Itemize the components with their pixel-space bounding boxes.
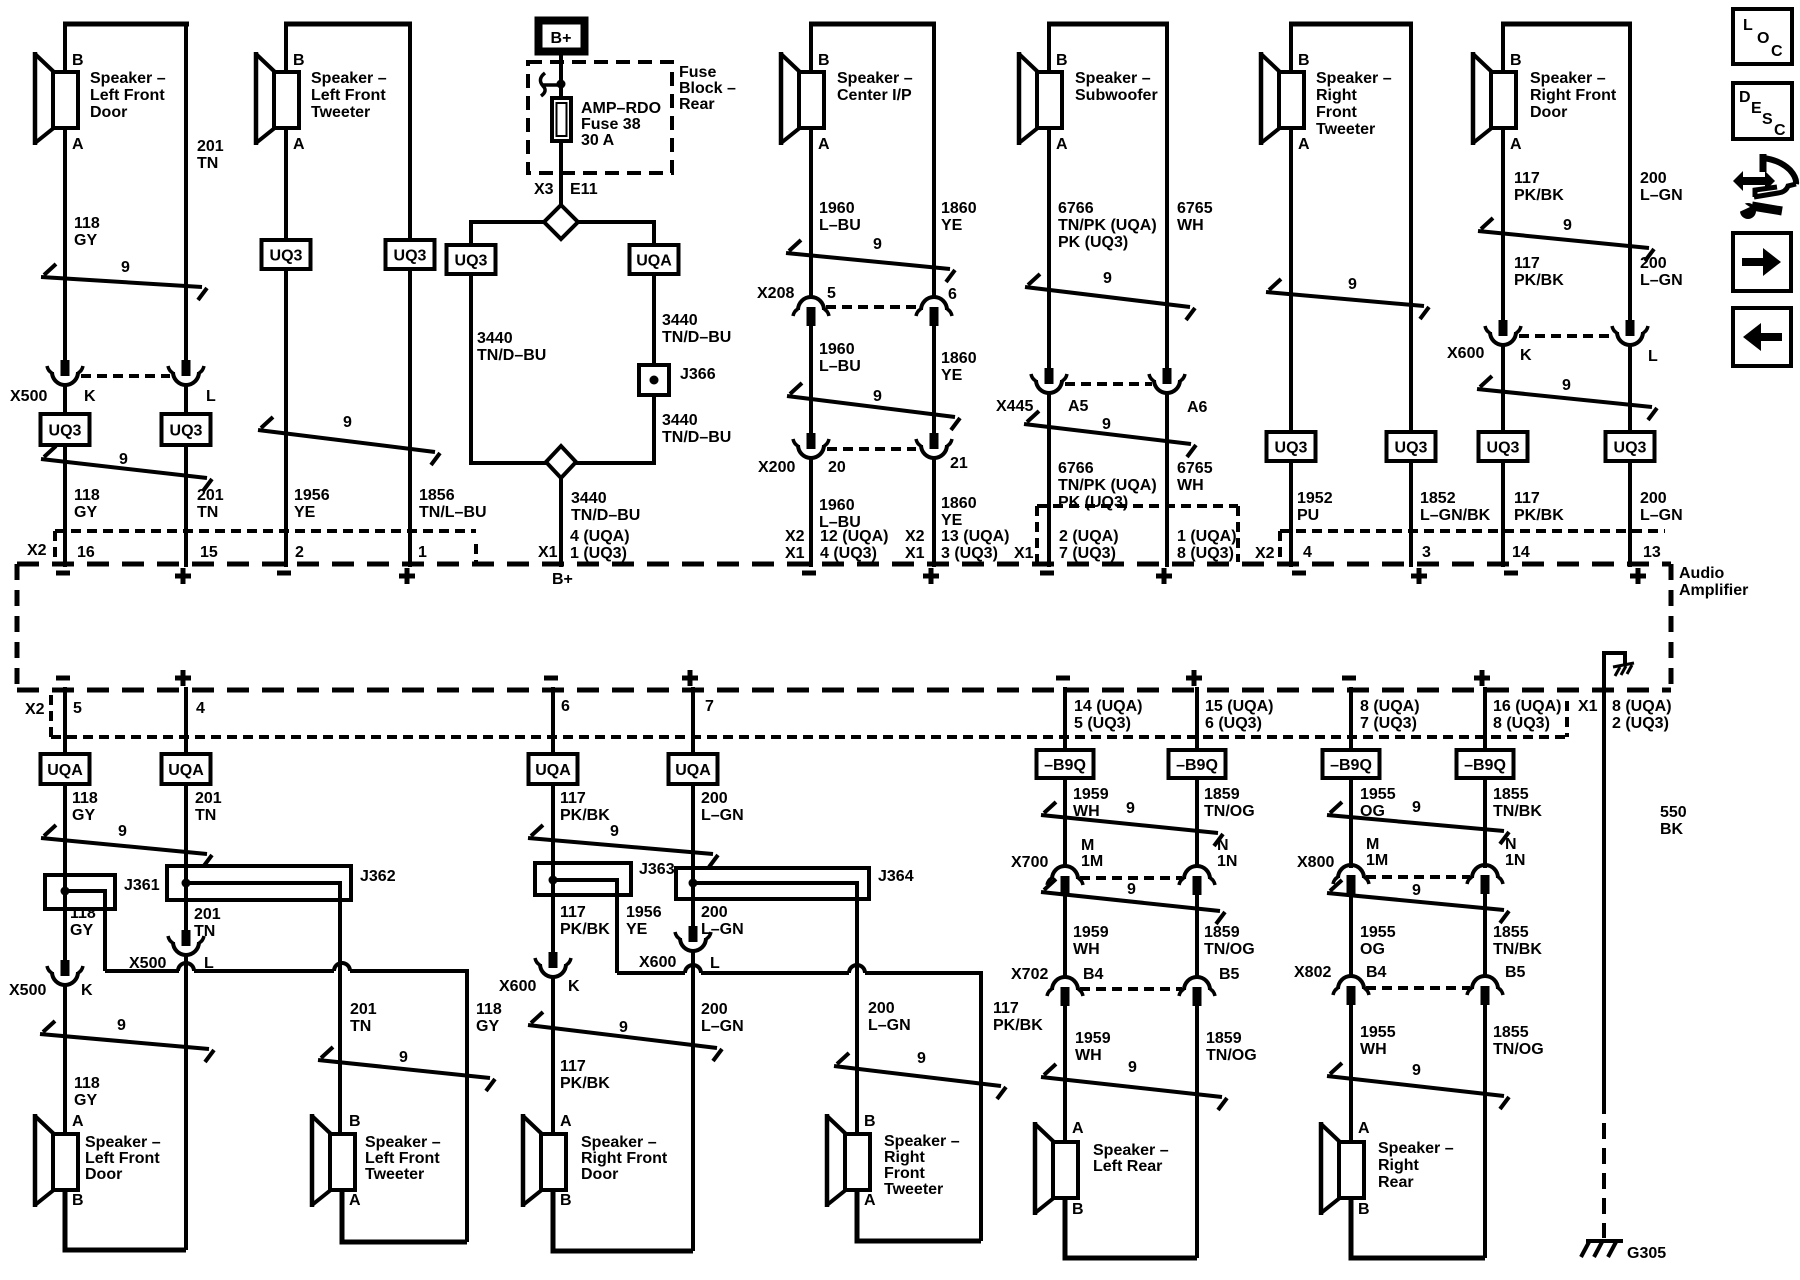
svg-text:3 (UQ3): 3 (UQ3) (941, 545, 998, 562)
svg-text:WH: WH (1177, 217, 1204, 234)
option box -B9Q (1323, 750, 1380, 778)
svg-text:L–GN/BK: L–GN/BK (1420, 507, 1491, 524)
wire 6765 WH to amp pin 1 (1167, 393, 1213, 567)
svg-text:D: D (1739, 89, 1751, 106)
svg-text:E11: E11 (570, 181, 598, 198)
wire 1856 TN/L-BU to amp pin 1 (410, 269, 487, 567)
svg-text:9: 9 (343, 414, 352, 431)
svg-text:A: A (1298, 136, 1310, 153)
svg-text:GY: GY (74, 232, 97, 249)
svg-text:1860: 1860 (941, 495, 977, 512)
wire 201 TN to amp pin 15 (186, 445, 224, 567)
svg-text:UQA: UQA (168, 762, 204, 779)
X702 dotted mate line (1080, 987, 1182, 991)
svg-text:GY: GY (72, 807, 95, 824)
twisted pair 9 (318, 1047, 495, 1091)
svg-text:9: 9 (1412, 1062, 1421, 1079)
svg-text:BK: BK (1660, 821, 1684, 838)
wire 1955 WH to R rear speaker (1351, 1005, 1396, 1142)
speaker SP5 Speaker - Right Front Tweeter (top) (1261, 24, 1413, 153)
svg-text:6766: 6766 (1058, 460, 1094, 477)
twisted pair 9 (834, 1050, 1006, 1099)
svg-text:117: 117 (993, 1000, 1019, 1017)
option box UQ3 (1267, 432, 1316, 461)
svg-text:9: 9 (1127, 881, 1136, 898)
speaker SP2 Speaker - Left Front Tweeter (top) (256, 24, 412, 153)
twisted pair 9 (787, 383, 960, 430)
svg-text:TN/PK (UQA): TN/PK (UQA) (1058, 217, 1157, 234)
svg-text:PK/BK: PK/BK (560, 921, 610, 938)
twisted pair 9 (1327, 880, 1509, 923)
svg-text:21: 21 (950, 455, 968, 472)
option box UQ3 (262, 240, 311, 269)
svg-text:TN/OG: TN/OG (1204, 803, 1255, 820)
svg-text:Speaker –: Speaker – (837, 70, 913, 87)
twisted pair 9 (786, 236, 955, 282)
svg-text:A: A (293, 136, 305, 153)
svg-text:PK/BK: PK/BK (1514, 272, 1564, 289)
wire 6766 to amp pin 2 (1049, 393, 1157, 567)
wire 1955 OG to X802 (1351, 894, 1396, 976)
svg-text:201: 201 (350, 1001, 377, 1018)
svg-text:15: 15 (200, 544, 218, 561)
wire 1952 PU to amp pin 4 (1291, 461, 1333, 567)
option box -B9Q (1037, 750, 1094, 778)
svg-text:A: A (560, 1113, 572, 1130)
svg-text:B: B (293, 52, 305, 69)
wire 3440 TN/D-BU right branch lower (576, 395, 731, 463)
svg-text:6765: 6765 (1177, 200, 1213, 217)
svg-text:C: C (1771, 43, 1783, 60)
wire amp pin 14 to -B9Q (1063, 687, 1067, 750)
twisted pair 9 (258, 414, 440, 465)
connector X500 pin L (bottom) (129, 930, 214, 972)
svg-text:B4: B4 (1366, 964, 1387, 981)
svg-text:X500: X500 (9, 982, 46, 999)
svg-text:201: 201 (194, 906, 221, 923)
svg-text:X1: X1 (905, 545, 925, 562)
svg-text:TN: TN (195, 807, 216, 824)
option box UQ3 (1479, 432, 1528, 461)
wire 201 TN X500 L down (184, 955, 188, 1250)
J362 branch wire 201 TN (186, 883, 377, 1134)
svg-text:TN/D–BU: TN/D–BU (662, 429, 731, 446)
svg-text:1N: 1N (1217, 853, 1237, 870)
svg-text:6765: 6765 (1177, 460, 1213, 477)
svg-text:1959: 1959 (1073, 786, 1109, 803)
svg-text:2: 2 (295, 544, 304, 561)
X802 dotted mate line (1366, 986, 1470, 990)
wire B+ into fuse block (559, 52, 563, 98)
wire 118 GY LF door negative (65, 24, 100, 360)
svg-text:UQ3: UQ3 (394, 248, 427, 265)
wire 117 PK/BK to RF door speaker A (553, 977, 610, 1134)
svg-text:9: 9 (1412, 882, 1421, 899)
RF door speaker loop bottom (553, 1190, 693, 1251)
wire amp pin 6 to UQA (551, 687, 555, 754)
svg-text:PK/BK: PK/BK (560, 807, 610, 824)
svg-text:Right Front: Right Front (581, 1150, 668, 1167)
svg-text:UQ3: UQ3 (170, 423, 203, 440)
svg-text:7: 7 (705, 698, 714, 715)
svg-text:1955: 1955 (1360, 924, 1396, 941)
connector X200 pin 21 (916, 433, 968, 472)
svg-text:TN/BK: TN/BK (1493, 803, 1542, 820)
connector X445 pin A6 (1149, 368, 1208, 416)
svg-text:Center I/P: Center I/P (837, 87, 912, 104)
svg-text:WH: WH (1073, 941, 1100, 958)
option box UQA right branch (630, 245, 679, 274)
wire 3440 TN/D-BU right branch upper (578, 222, 731, 365)
LF door speaker loop bottom (65, 1190, 186, 1250)
svg-text:UQA: UQA (535, 762, 571, 779)
svg-text:117: 117 (1514, 170, 1540, 187)
twisted pair 9 (41, 259, 207, 300)
svg-text:YE: YE (941, 512, 963, 529)
wire labels below crossing (1514, 255, 1683, 289)
svg-text:X800: X800 (1297, 854, 1334, 871)
svg-text:X1: X1 (1578, 698, 1598, 715)
svg-text:X2: X2 (905, 528, 925, 545)
svg-text:9: 9 (610, 823, 619, 840)
R rear speaker loop bottom (1351, 1198, 1485, 1258)
speaker SP6 Speaker - Right Front Door (top) (1473, 24, 1632, 153)
svg-text:13: 13 (1643, 544, 1661, 561)
svg-text:YE: YE (941, 217, 963, 234)
amp bottom connector dotted row (51, 695, 1567, 737)
svg-text:Front: Front (884, 1165, 926, 1182)
svg-text:B: B (560, 1192, 572, 1209)
connector X700 pin M 1M (1011, 837, 1103, 895)
speaker SP8 Speaker - Left Front Tweeter (bottom) (312, 1113, 441, 1209)
svg-text:TN/D–BU: TN/D–BU (571, 507, 640, 524)
svg-text:WH: WH (1177, 477, 1204, 494)
svg-text:TN/D–BU: TN/D–BU (477, 347, 546, 364)
wire amp pin 7 to UQA (691, 687, 695, 754)
wire 6766 subwoofer negative (1049, 24, 1157, 368)
shared rail 1956 YE / 117 PK/BK (617, 965, 1043, 1241)
svg-text:Tweeter: Tweeter (1316, 121, 1375, 138)
twisted pair 9 (1041, 800, 1223, 846)
svg-text:Right: Right (1316, 87, 1358, 104)
svg-text:M: M (1366, 836, 1379, 853)
svg-text:B: B (864, 1113, 876, 1130)
svg-text:Speaker –: Speaker – (1316, 70, 1392, 87)
svg-text:1859: 1859 (1204, 786, 1240, 803)
svg-text:UQA: UQA (675, 762, 711, 779)
connector X700 pin N 1N (1179, 837, 1237, 895)
svg-text:118: 118 (476, 1001, 502, 1018)
svg-text:–B9Q: –B9Q (1044, 757, 1086, 774)
svg-text:UQ3: UQ3 (455, 253, 488, 270)
wire 1860 YE center positive (934, 24, 977, 299)
svg-text:3440: 3440 (477, 330, 513, 347)
svg-text:200: 200 (1640, 255, 1667, 272)
svg-text:117: 117 (1514, 490, 1540, 507)
svg-text:3440: 3440 (571, 490, 607, 507)
svg-text:9: 9 (1412, 799, 1421, 816)
svg-text:200: 200 (1640, 170, 1667, 187)
svg-text:200: 200 (868, 1000, 895, 1017)
svg-text:A: A (1072, 1120, 1084, 1137)
svg-text:200: 200 (701, 790, 728, 807)
J363 branch wire 1956 YE (553, 880, 662, 973)
svg-text:Left Front: Left Front (90, 87, 165, 104)
icon double arrow with wrench (1733, 154, 1796, 219)
svg-text:C: C (1774, 122, 1786, 139)
svg-text:1N: 1N (1505, 852, 1525, 869)
svg-text:TN: TN (350, 1018, 371, 1035)
twisted pair 9 (1024, 411, 1196, 457)
svg-text:X500: X500 (10, 388, 47, 405)
wire amp pin 4 to UQA (184, 687, 188, 754)
svg-text:X2: X2 (1255, 545, 1275, 562)
svg-text:L–BU: L–BU (819, 217, 861, 234)
twisted pair 9 (528, 823, 718, 867)
svg-text:201: 201 (195, 790, 222, 807)
svg-text:Left Front: Left Front (311, 87, 386, 104)
svg-text:–B9Q: –B9Q (1176, 757, 1218, 774)
connector X802 pin B4 (1294, 964, 1387, 1005)
connector X208 pin 6 (916, 286, 957, 326)
amp bottom polarity signs (56, 670, 1490, 686)
svg-text:X802: X802 (1294, 964, 1331, 981)
svg-text:B: B (818, 52, 830, 69)
wire LF tweeter positive (408, 24, 412, 240)
wire 1960 L-BU to amp pin 12 (811, 458, 861, 567)
splice J363 (535, 861, 675, 895)
svg-text:118: 118 (74, 487, 100, 504)
wire 117 PK/BK J363 to X600 K (553, 895, 610, 952)
svg-text:Right: Right (884, 1149, 926, 1166)
svg-text:14 (UQA): 14 (UQA) (1074, 698, 1142, 715)
svg-text:Speaker –: Speaker – (85, 1134, 161, 1151)
svg-text:117: 117 (560, 1058, 586, 1075)
svg-text:B: B (1056, 52, 1068, 69)
svg-text:9: 9 (873, 236, 882, 253)
svg-text:1852: 1852 (1420, 490, 1456, 507)
option box UQA (41, 754, 90, 784)
wire below X500 L (184, 385, 188, 414)
svg-text:B: B (1298, 52, 1310, 69)
option box UQ3 (162, 414, 211, 445)
speaker SP12 Speaker - Right Rear (bottom) (1321, 1120, 1454, 1218)
fuse AMP-RDO Fuse 38 30 A (552, 98, 661, 149)
svg-text:WH: WH (1075, 1047, 1102, 1064)
svg-text:GY: GY (70, 922, 93, 939)
svg-text:TN/L–BU: TN/L–BU (419, 504, 487, 521)
option box UQA (162, 754, 211, 784)
svg-text:Left Front: Left Front (365, 1150, 440, 1167)
svg-text:Front: Front (1316, 104, 1358, 121)
svg-text:8 (UQ3): 8 (UQ3) (1177, 545, 1234, 562)
svg-text:1 (UQA): 1 (UQA) (1177, 528, 1237, 545)
connector X600 pin K (bottom) (499, 952, 580, 995)
svg-text:6 (UQ3): 6 (UQ3) (1205, 715, 1262, 732)
option box -B9Q (1169, 750, 1226, 778)
connector X500 pin K (10, 360, 96, 405)
svg-text:N: N (1217, 837, 1229, 854)
wire 1956 YE to amp pin 2 (286, 269, 330, 567)
svg-text:Speaker –: Speaker – (311, 70, 387, 87)
svg-text:1855: 1855 (1493, 924, 1529, 941)
svg-text:118: 118 (70, 905, 96, 922)
svg-text:J361: J361 (124, 877, 160, 894)
svg-text:X600: X600 (639, 954, 676, 971)
svg-text:9: 9 (917, 1050, 926, 1067)
bus stud hook symbol (540, 73, 565, 96)
svg-text:1959: 1959 (1073, 924, 1109, 941)
amp internal ground (1604, 653, 1634, 687)
svg-text:E: E (1751, 100, 1762, 117)
svg-text:J364: J364 (878, 868, 914, 885)
speaker SP3 Speaker - Center I/P (top) (781, 24, 936, 153)
svg-text:UQA: UQA (47, 762, 83, 779)
svg-text:YE: YE (626, 921, 648, 938)
svg-text:UQA: UQA (636, 253, 672, 270)
svg-text:AMP–RDO: AMP–RDO (581, 100, 661, 117)
X700 dotted mate line (1080, 876, 1182, 880)
wire 201 TN below UQA (186, 784, 222, 866)
wire 1960 L-BU center negative (811, 24, 861, 299)
svg-text:5: 5 (827, 285, 836, 302)
svg-text:Tweeter: Tweeter (311, 104, 370, 121)
svg-text:PK/BK: PK/BK (560, 1075, 610, 1092)
svg-text:9: 9 (1348, 276, 1357, 293)
wire 6765 WH subwoofer positive (1167, 24, 1213, 368)
svg-text:1860: 1860 (941, 350, 977, 367)
amp top connector dotted row (55, 506, 1665, 562)
X600 dotted mate line (1519, 334, 1614, 338)
connector X600 pin L (bottom) (639, 926, 720, 972)
speaker SP7 Speaker - Left Front Door (bottom) (35, 1113, 161, 1209)
svg-text:X600: X600 (1447, 345, 1484, 362)
wire fuse output (534, 141, 598, 205)
speaker SP10 Speaker - Right Front Tweeter (bottom) (827, 1113, 960, 1209)
svg-text:16 (UQA): 16 (UQA) (1493, 698, 1561, 715)
wire 200 L-GN to amp pin 13 (1630, 345, 1683, 567)
svg-text:TN/OG: TN/OG (1493, 1041, 1544, 1058)
svg-text:30 A: 30 A (581, 132, 615, 149)
svg-text:L: L (206, 388, 216, 405)
twisted pair 9 (41, 446, 212, 491)
svg-text:L: L (1743, 17, 1753, 34)
svg-text:–B9Q: –B9Q (1330, 757, 1372, 774)
svg-text:Speaker –: Speaker – (365, 1134, 441, 1151)
wire 1959 WH to X702 (1065, 895, 1109, 977)
svg-text:9: 9 (399, 1049, 408, 1066)
wire 200 L-GN X600 L down (693, 951, 744, 1251)
svg-text:Speaker –: Speaker – (1075, 70, 1151, 87)
svg-text:9: 9 (1562, 377, 1571, 394)
svg-text:X1: X1 (1014, 545, 1034, 562)
svg-text:B5: B5 (1505, 964, 1526, 981)
option box UQ3 (1606, 432, 1655, 461)
wire RF tweeter negative (1289, 24, 1293, 432)
svg-text:1955: 1955 (1360, 786, 1396, 803)
battery feed B+ box (539, 21, 585, 52)
svg-text:1M: 1M (1366, 852, 1388, 869)
svg-text:1855: 1855 (1493, 786, 1529, 803)
svg-text:1952: 1952 (1297, 490, 1333, 507)
splice diamond top (544, 205, 578, 239)
svg-text:118: 118 (74, 215, 100, 232)
svg-text:2 (UQ3): 2 (UQ3) (1612, 715, 1669, 732)
svg-text:PK/BK: PK/BK (993, 1017, 1043, 1034)
connector X802 pin B5 (1467, 964, 1526, 1005)
splice J366 (639, 365, 716, 395)
svg-text:B: B (1358, 1201, 1370, 1218)
amp top pin labels (27, 528, 630, 562)
svg-text:4 (UQ3): 4 (UQ3) (820, 545, 877, 562)
splice J364 (676, 868, 914, 899)
wire 117 PK/BK to amp pin 14 (1503, 345, 1564, 567)
svg-text:1855: 1855 (1493, 1024, 1529, 1041)
svg-text:GY: GY (74, 504, 97, 521)
twisted pair 9 (528, 1012, 722, 1061)
icon right arrow box (1733, 233, 1791, 291)
svg-text:YE: YE (941, 367, 963, 384)
audio amplifier dashed box (17, 564, 1671, 690)
wire 1859 TN/OG below -B9Q (1197, 778, 1255, 868)
svg-text:1: 1 (418, 544, 427, 561)
connector X702 pin B4 (1011, 966, 1104, 1006)
connector X800 pin M 1M (1297, 836, 1388, 894)
L rear speaker loop bottom (1065, 1198, 1197, 1258)
svg-text:1956: 1956 (294, 487, 330, 504)
wire amp pin 16 to -B9Q (1483, 687, 1487, 750)
wire 1959 WH to L rear speaker (1065, 1006, 1111, 1142)
wire 1855 TN/BK to X802 (1485, 894, 1542, 976)
svg-text:8 (UQA): 8 (UQA) (1612, 698, 1672, 715)
svg-text:5: 5 (73, 700, 82, 717)
svg-text:6: 6 (561, 698, 570, 715)
wire 1860 YE to X200 (934, 326, 977, 433)
twisted pair 9 (40, 1017, 214, 1062)
icon DESC box (1733, 83, 1792, 139)
svg-text:TN: TN (197, 155, 218, 172)
svg-text:Tweeter: Tweeter (884, 1181, 943, 1198)
wire 1955 OG below -B9Q (1351, 778, 1396, 868)
svg-text:Amplifier: Amplifier (1679, 582, 1748, 599)
svg-text:4 (UQA): 4 (UQA) (570, 528, 630, 545)
speaker SP4 Speaker - Subwoofer (top) (1019, 24, 1169, 153)
ground G305 (1581, 1241, 1666, 1262)
svg-text:9: 9 (1103, 270, 1112, 287)
svg-text:Tweeter: Tweeter (365, 1166, 424, 1183)
amp bottom pin labels (25, 698, 714, 718)
svg-text:TN/BK: TN/BK (1493, 941, 1542, 958)
svg-text:6: 6 (948, 286, 957, 303)
svg-text:1860: 1860 (941, 200, 977, 217)
svg-text:Door: Door (90, 104, 127, 121)
twisted pair 9 (1041, 1059, 1227, 1110)
svg-text:200: 200 (701, 904, 728, 921)
connector X500 pin L (168, 360, 216, 405)
svg-text:L–GN: L–GN (1640, 272, 1683, 289)
svg-text:A: A (1358, 1120, 1370, 1137)
svg-text:K: K (81, 982, 93, 999)
svg-text:Rear: Rear (1378, 1174, 1414, 1191)
wire RF tweeter positive (1409, 24, 1413, 432)
svg-text:TN/PK (UQA): TN/PK (UQA) (1058, 477, 1157, 494)
svg-text:A6: A6 (1187, 399, 1208, 416)
svg-text:L–GN: L–GN (868, 1017, 911, 1034)
X800 dotted mate line (1366, 875, 1470, 879)
wire amp pin 5 to UQA (63, 687, 67, 754)
svg-text:PK (UQ3): PK (UQ3) (1058, 494, 1128, 511)
wire 117 PK/BK below UQA (553, 784, 610, 863)
